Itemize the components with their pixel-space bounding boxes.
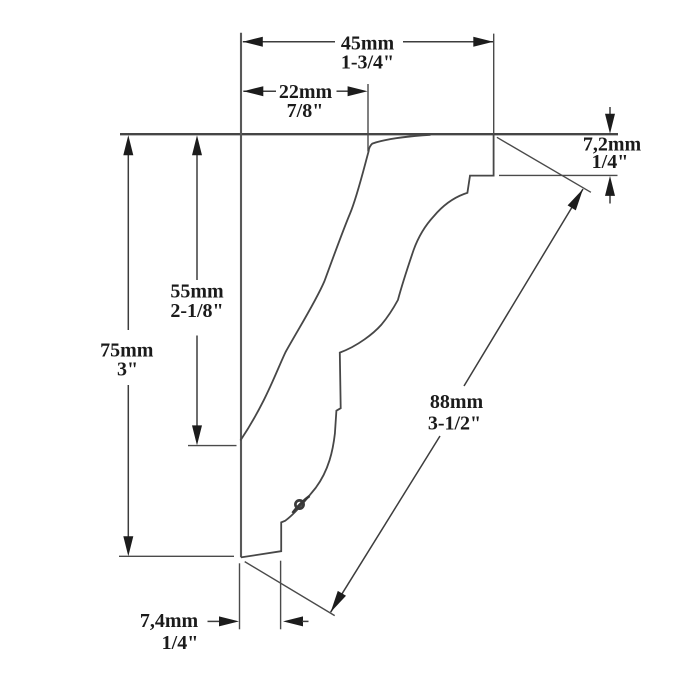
- svg-text:1/4": 1/4": [162, 632, 199, 654]
- arrow 7,2mm top: [609, 107, 611, 116]
- 88mm upper extension line: [497, 137, 591, 192]
- svg-text:3": 3": [117, 359, 138, 381]
- dimension 45mm line: [243, 41, 335, 43]
- svg-text:2-1/8": 2-1/8": [170, 300, 223, 322]
- ceiling reference line: [120, 133, 618, 135]
- arrow 22mm left: [243, 86, 263, 96]
- dimension 55mm line: [196, 153, 198, 280]
- svg-text:7/8": 7/8": [287, 100, 324, 122]
- svg-text:1-3/4": 1-3/4": [341, 52, 394, 74]
- 75mm bottom extension tick: [119, 555, 234, 557]
- svg-text:1/4": 1/4": [592, 151, 629, 173]
- 22mm extension line: [367, 84, 369, 151]
- arrow 7,2mm bottom: [609, 195, 611, 204]
- arrow 45mm right: [473, 37, 493, 47]
- arrow 88mm bottom: [331, 591, 346, 612]
- crown moulding profile: front face: [241, 134, 494, 557]
- 7,4mm right extension line: [280, 561, 282, 630]
- dimension 22mm line: [243, 90, 276, 92]
- right extension line (45mm) and profile right edge: [493, 34, 495, 176]
- arrow 88mm top: [568, 189, 583, 210]
- arrow 75mm top: [123, 135, 133, 155]
- svg-text:3-1/2": 3-1/2": [428, 413, 481, 435]
- crown moulding profile: hollow back face: [240, 135, 430, 441]
- dimension 88mm line: [464, 189, 583, 386]
- arrow 7,4mm left: [208, 620, 221, 622]
- svg-text:88mm: 88mm: [430, 391, 484, 413]
- 7,2mm lower reference line: [499, 174, 618, 176]
- svg-text:7,4mm: 7,4mm: [140, 610, 199, 632]
- 55mm bottom extension tick: [188, 445, 237, 447]
- 88mm lower extension line: [245, 562, 335, 616]
- arrow 45mm left: [243, 37, 263, 47]
- arrow 7,4mm right: [283, 616, 303, 626]
- dimension 75mm line: [127, 153, 129, 330]
- arrow 55mm bottom: [192, 425, 202, 445]
- arrow 75mm bottom: [123, 536, 133, 556]
- arrow 55mm top: [192, 135, 202, 155]
- 7,4mm left extension line: [239, 563, 241, 629]
- decorative hook detail: [295, 500, 303, 508]
- arrow 22mm right: [348, 86, 368, 96]
- wall / left extension line: [240, 33, 242, 558]
